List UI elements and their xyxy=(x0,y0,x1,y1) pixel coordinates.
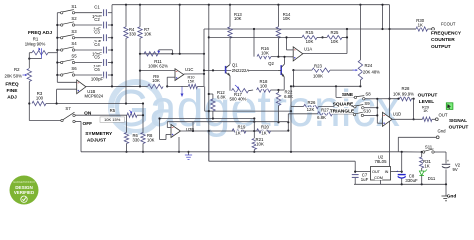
capacitor C8 330uF electrolytic xyxy=(401,172,403,174)
resistor R19 1K xyxy=(232,129,246,133)
svg-text:6.8K: 6.8K xyxy=(284,94,293,99)
svg-text:R15: R15 xyxy=(306,30,314,35)
svg-text:S3: S3 xyxy=(71,29,77,34)
svg-text:10K: 10K xyxy=(283,16,291,21)
LED D11 xyxy=(419,171,424,176)
SQUARE row xyxy=(291,106,304,108)
svg-text:100K 62%: 100K 62% xyxy=(148,64,168,69)
switch S3 xyxy=(57,37,60,39)
svg-text:R23: R23 xyxy=(314,64,322,69)
op-amp U1B MCP6024 xyxy=(77,80,86,94)
wire R1 left xyxy=(29,52,32,54)
wire U1A minus xyxy=(287,49,294,51)
svg-text:ADJ: ADJ xyxy=(7,95,17,101)
svg-text:Gnd: Gnd xyxy=(447,193,457,199)
resistor R13 10K xyxy=(229,5,231,27)
svg-text:S2: S2 xyxy=(71,16,77,21)
svg-text:10K: 10K xyxy=(147,137,155,142)
IN wire xyxy=(391,171,402,173)
potentiometer R2 20K 50% xyxy=(14,67,20,72)
switch S5 xyxy=(57,62,60,64)
wire U1C plus input xyxy=(167,76,175,78)
resistor R7 10K xyxy=(139,5,141,27)
svg-text:SQUARE: SQUARE xyxy=(333,102,354,108)
resistor R29 1K xyxy=(422,117,432,121)
R6 column from R5 wire xyxy=(126,115,128,132)
svg-text:S5: S5 xyxy=(71,54,77,59)
resistor R6 330 xyxy=(124,133,128,144)
svg-text:10K 99.9%: 10K 99.9% xyxy=(393,91,414,96)
svg-text:R5: R5 xyxy=(110,108,116,113)
resistor R14 10K xyxy=(277,5,279,27)
switch S8 xyxy=(354,96,356,98)
label OUTPUT LEVEL xyxy=(419,92,436,98)
vertical x293 xyxy=(292,70,294,86)
resistor R12 6.8K xyxy=(209,93,213,95)
svg-text:10K: 10K xyxy=(331,39,339,44)
svg-text:R28: R28 xyxy=(402,86,410,91)
wire Q1 base xyxy=(204,69,278,71)
FCOUT feed xyxy=(390,28,417,30)
svg-text:C6: C6 xyxy=(94,67,100,72)
left selector bus xyxy=(56,13,58,75)
svg-text:FREQ ADJ: FREQ ADJ xyxy=(28,30,52,36)
svg-text:SYMMETRY: SYMMETRY xyxy=(85,131,113,137)
R11 wiper bridge xyxy=(158,50,160,51)
svg-text:S4: S4 xyxy=(71,41,77,46)
regulator U2 78L05 xyxy=(378,154,384,159)
label FREQ FINE ADJ xyxy=(6,81,18,87)
SINE row xyxy=(335,86,337,97)
svg-text:330: 330 xyxy=(133,137,141,142)
right capacitor bus xyxy=(111,5,113,87)
svg-text:10K: 10K xyxy=(256,142,264,147)
selector bus to U1D xyxy=(376,99,378,123)
svg-text:10K: 10K xyxy=(261,51,269,56)
battery V2 9V xyxy=(445,152,447,164)
svg-text:S8: S8 xyxy=(365,91,371,96)
op-amp U3B xyxy=(171,125,181,138)
svg-text:FREQ: FREQ xyxy=(5,82,19,88)
op-amp U1D xyxy=(383,112,393,126)
svg-text:330: 330 xyxy=(129,32,137,37)
svg-text:R2: R2 xyxy=(14,67,20,72)
svg-text:D11: D11 xyxy=(428,176,436,181)
svg-text:C4: C4 xyxy=(94,42,100,47)
ground symbol bottom right xyxy=(445,184,447,196)
wire R7/R8 column xyxy=(142,104,144,134)
switch S7 xyxy=(28,104,30,121)
design verified badge xyxy=(10,176,39,205)
resistor R21 10K xyxy=(253,119,255,139)
svg-text:S1: S1 xyxy=(71,4,77,9)
svg-text:COM: COM xyxy=(374,176,383,180)
svg-text:1K: 1K xyxy=(261,130,266,135)
U3B plus feed vertical xyxy=(159,119,161,140)
terminal OUT xyxy=(435,118,438,121)
svg-text:R26: R26 xyxy=(308,100,316,105)
svg-text:FINE: FINE xyxy=(7,88,19,94)
vertical from rail to R28 row xyxy=(389,5,391,167)
potentiometer R5 10K 15% xyxy=(110,108,116,113)
capacitor C1 10uF xyxy=(75,12,102,14)
svg-text:C1: C1 xyxy=(94,5,100,10)
switch S4 xyxy=(57,49,60,51)
switch S9 xyxy=(354,106,356,108)
svg-text:R19: R19 xyxy=(238,124,246,129)
svg-text:78L05: 78L05 xyxy=(375,159,388,164)
svg-text:9V: 9V xyxy=(453,167,458,172)
vertical x288 triangle feed xyxy=(287,114,289,131)
switch S6 xyxy=(57,74,60,76)
R5 wire to column xyxy=(137,114,143,116)
switch S1 xyxy=(57,12,60,14)
potentiometer R28 10K 99.9% xyxy=(365,98,399,100)
wire plus input xyxy=(57,88,77,90)
svg-text:1Meg 90%: 1Meg 90% xyxy=(25,42,46,47)
capacitor C4 10nF xyxy=(75,49,102,51)
label SYMMETRY ADJUST xyxy=(87,131,110,137)
switch S11 xyxy=(424,145,432,150)
TRIANGLE row xyxy=(288,113,317,115)
vertical from rail x208 xyxy=(208,5,210,162)
svg-text:U1A: U1A xyxy=(304,46,312,51)
svg-text:ON: ON xyxy=(84,111,92,117)
svg-text:SIGNAL: SIGNAL xyxy=(449,118,467,124)
OUT wire xyxy=(355,171,370,173)
terminal Gnd xyxy=(437,129,445,134)
resistor R30 1K xyxy=(416,27,428,31)
resistor R9 10K xyxy=(148,84,163,88)
wire y111 xyxy=(205,110,291,112)
svg-text:FCOUT: FCOUT xyxy=(441,21,456,26)
square wave line xyxy=(203,29,205,74)
analog ground rail xyxy=(81,151,398,153)
OFF wire xyxy=(75,121,81,123)
svg-text:OUT: OUT xyxy=(372,170,381,174)
svg-text:VERIFIED: VERIFIED xyxy=(14,190,34,195)
svg-text:S11: S11 xyxy=(425,145,433,150)
capacitor C3 .1uF xyxy=(75,37,102,39)
svg-text:15K: 15K xyxy=(188,79,195,83)
S11 feed down to IN xyxy=(401,152,403,172)
svg-text:R20: R20 xyxy=(261,124,269,129)
wire U1B output xyxy=(86,85,148,87)
svg-text:1K: 1K xyxy=(235,130,240,135)
Q2 emitter to R18 node xyxy=(283,77,285,90)
wire R3 to U1B node xyxy=(46,103,143,105)
label Gnd xyxy=(447,193,456,199)
rail stub x382 xyxy=(382,5,384,29)
resistor R3 100 xyxy=(37,91,43,96)
label ON xyxy=(85,110,91,116)
svg-text:U1C: U1C xyxy=(185,67,193,72)
svg-text:Q1: Q1 xyxy=(232,62,238,67)
svg-text:100: 100 xyxy=(36,96,44,101)
op-amp U1A xyxy=(293,47,303,61)
Vdd top rail xyxy=(112,4,390,6)
svg-text:500 40%: 500 40% xyxy=(230,96,247,101)
svg-text:ADJUST: ADJUST xyxy=(87,138,106,144)
wire y86 xyxy=(293,85,360,87)
resistor R15 10K xyxy=(302,35,317,39)
svg-text:1K: 1K xyxy=(424,164,429,169)
resistor R20 1K xyxy=(257,129,271,133)
wire R2 to R3 xyxy=(28,82,30,104)
svg-text:OUTPUT: OUTPUT xyxy=(431,44,451,50)
switch S2 xyxy=(57,24,60,26)
capacitor C5 1nF xyxy=(75,62,102,64)
svg-text:330uF: 330uF xyxy=(405,178,418,183)
bottom ground rail xyxy=(354,183,446,185)
svg-text:12K: 12K xyxy=(307,107,315,112)
label FREQ ADJ xyxy=(29,30,52,36)
svg-text:10K: 10K xyxy=(144,32,152,37)
wire minus input to cap bus xyxy=(56,75,58,82)
rail stub to R11 node xyxy=(179,5,181,54)
ON wire to R5 xyxy=(75,114,127,116)
svg-text:OUTPUT: OUTPUT xyxy=(418,93,438,99)
battery feed wire xyxy=(398,151,421,153)
svg-text:R24: R24 xyxy=(365,63,373,68)
Vref arrow below U1C xyxy=(181,86,183,93)
wire y118 xyxy=(160,118,255,120)
wire y37 mid xyxy=(209,36,302,38)
svg-text:2N2222A: 2N2222A xyxy=(232,68,250,73)
svg-text:OFF: OFF xyxy=(83,121,93,127)
Q2 collector to U1A plus wire xyxy=(284,57,286,64)
svg-text:TRIANGLE: TRIANGLE xyxy=(330,108,355,114)
resistor R8 10K xyxy=(141,133,145,144)
vertical x291 lower xyxy=(290,107,292,152)
svg-text:6.8K: 6.8K xyxy=(217,94,226,99)
svg-text:Gadgetronicx: Gadgetronicx xyxy=(112,80,400,138)
svg-text:100pF: 100pF xyxy=(91,76,104,81)
vertical x291 square feed xyxy=(290,86,292,106)
U3B output wire xyxy=(181,130,289,132)
wire R1 to bus xyxy=(48,52,57,54)
svg-text:OUTPUT: OUTPUT xyxy=(449,124,469,130)
svg-text:FREQUENCY: FREQUENCY xyxy=(431,30,462,36)
terminal FCOUT xyxy=(432,28,435,31)
svg-text:SINE: SINE xyxy=(342,92,354,98)
R28 right to output xyxy=(413,99,415,120)
svg-text:Q2: Q2 xyxy=(268,61,274,66)
svg-text:100K: 100K xyxy=(313,74,323,79)
resistor R10 15K xyxy=(167,85,188,87)
svg-text:C3: C3 xyxy=(94,30,100,35)
svg-text:20K 50%: 20K 50% xyxy=(4,73,22,78)
resistor R16 10K xyxy=(253,29,255,57)
svg-text:Gnd: Gnd xyxy=(437,128,446,133)
svg-text:S7: S7 xyxy=(65,106,71,111)
wire U1C minus input xyxy=(140,70,175,72)
potentiometer R17 500 40% xyxy=(232,89,249,93)
U3B feedback wire xyxy=(167,127,171,129)
svg-text:C2: C2 xyxy=(94,17,100,22)
label SIGNAL OUTPUT xyxy=(449,118,466,124)
svg-text:1K: 1K xyxy=(423,108,428,113)
svg-text:20K 48%: 20K 48% xyxy=(363,70,380,75)
svg-text:COUNTER: COUNTER xyxy=(431,37,455,43)
resistor R4 330 xyxy=(125,5,127,27)
svg-text:S9: S9 xyxy=(364,101,370,106)
label FREQUENCY COUNTER OUTPUT xyxy=(431,30,456,36)
wire U3B out down to supply xyxy=(287,130,289,132)
switch S10 xyxy=(353,113,355,115)
svg-text:10K: 10K xyxy=(234,16,242,21)
svg-text:6.8K: 6.8K xyxy=(317,115,326,120)
svg-text:R27: R27 xyxy=(321,107,329,112)
svg-text:U1D: U1D xyxy=(393,112,401,117)
svg-text:OUT: OUT xyxy=(438,112,447,117)
capacitor C6 100pF xyxy=(75,74,102,76)
potentiometer R1 1Meg 90% xyxy=(33,37,39,42)
svg-text:1uF: 1uF xyxy=(361,177,369,182)
R23 wiper arrow to R24 xyxy=(353,69,358,71)
wire U1D output xyxy=(392,118,422,120)
U2 COM stub xyxy=(380,180,382,184)
Q1 emitter to R17 xyxy=(229,76,231,91)
svg-text:C5: C5 xyxy=(94,54,100,59)
svg-text:10K: 10K xyxy=(306,39,314,44)
svg-text:S10: S10 xyxy=(363,109,371,114)
svg-text:R25: R25 xyxy=(331,30,339,35)
resistor R25 10K xyxy=(317,36,327,38)
svg-text:10K 15%: 10K 15% xyxy=(104,117,121,122)
svg-text:1K: 1K xyxy=(418,22,423,27)
resistor R22 6.8K xyxy=(278,90,280,93)
capacitor C7 1uF xyxy=(354,172,356,174)
wire U1A output xyxy=(303,53,347,55)
label OFF xyxy=(83,121,92,127)
wire R11 row xyxy=(140,53,204,55)
watermark logo ring xyxy=(111,82,161,132)
transistor Q2 xyxy=(280,65,282,75)
svg-text:IN: IN xyxy=(385,170,389,174)
resistor R31 1K xyxy=(421,152,423,157)
resistor R23 100K xyxy=(293,69,312,71)
wire R10 to output xyxy=(198,85,205,87)
svg-text:100: 100 xyxy=(260,84,268,89)
ground below U3B xyxy=(178,151,180,153)
potentiometer R24 20K 48% xyxy=(359,5,361,60)
capacitor C2 1uF xyxy=(75,24,102,26)
svg-text:S6: S6 xyxy=(71,66,77,71)
resistor R18 100 xyxy=(249,89,254,92)
U3B plus input xyxy=(166,133,171,135)
svg-text:MCP6024: MCP6024 xyxy=(85,93,104,98)
potentiometer R11 100K 62% xyxy=(144,52,158,56)
svg-text:10K: 10K xyxy=(152,78,160,83)
green cursor icon xyxy=(446,103,453,110)
svg-text:GADGETRONICX: GADGETRONICX xyxy=(13,180,35,184)
transistor Q1 2N2222A xyxy=(225,66,227,74)
wire U1C output xyxy=(184,73,204,75)
op-amp U1C xyxy=(175,69,184,81)
